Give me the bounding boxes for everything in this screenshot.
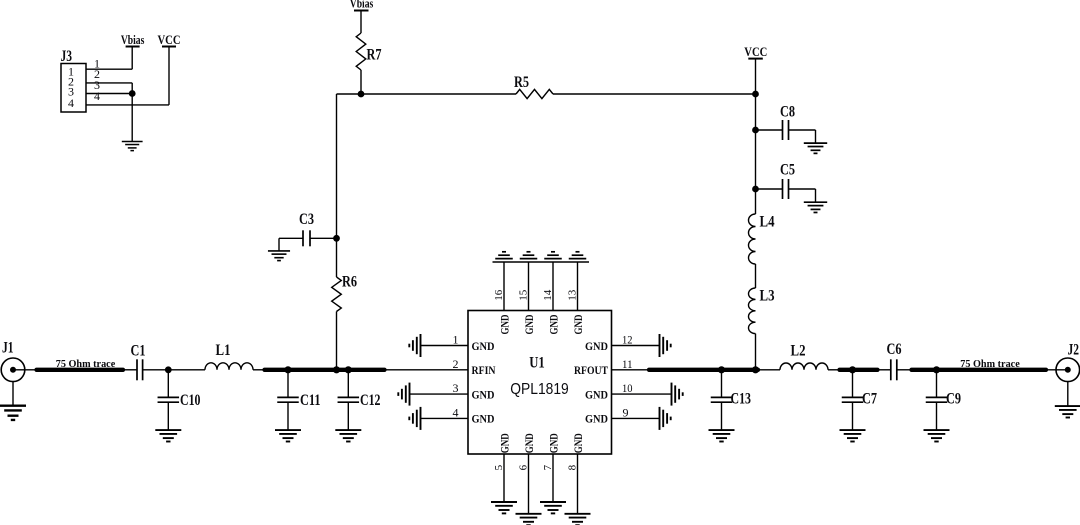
- resistor R5: [514, 74, 553, 99]
- wire bias column (C3/R6 branch): [336, 94, 338, 277]
- op-amp U1 body: [468, 311, 612, 455]
- wire VCC column upper: [755, 59, 757, 214]
- svg-text:1: 1: [453, 333, 459, 347]
- inductor L1: [205, 342, 253, 370]
- junction C9 tap: [934, 367, 940, 373]
- wire trace to J2: [1046, 369, 1068, 371]
- wire R6 to input trace: [336, 312, 338, 370]
- power flag Vbias (J3 area): [121, 33, 145, 47]
- ground U1 pin 14: [544, 252, 562, 259]
- trace input 75 Ohm: [37, 368, 124, 372]
- svg-text:GND: GND: [497, 314, 511, 334]
- wire Vbias to R7: [360, 11, 362, 34]
- capacitor C11: [277, 370, 320, 430]
- svg-text:GND: GND: [585, 387, 608, 401]
- svg-text:8: 8: [566, 464, 578, 470]
- trace output matching: [840, 368, 878, 372]
- wire U1 pin 13: [577, 262, 579, 311]
- wire U1 pin 15: [528, 262, 530, 311]
- svg-text:C3: C3: [299, 211, 314, 228]
- wire L2 to output trace 2: [828, 369, 839, 371]
- svg-text:11: 11: [622, 357, 633, 371]
- svg-text:RFIN: RFIN: [472, 363, 496, 377]
- capacitor C7: [842, 370, 877, 430]
- resistor R6: [332, 274, 357, 312]
- U1 top pins common bar: [493, 261, 590, 263]
- wire U1 pin 7: [552, 454, 554, 502]
- power flag VCC (J3 area): [158, 33, 181, 47]
- svg-text:Vbias: Vbias: [121, 33, 145, 47]
- wire J3 pin 4: [86, 104, 169, 106]
- ground J1: [0, 406, 26, 420]
- junction R7 / bias rail: [358, 91, 363, 96]
- resistor R7: [356, 33, 381, 70]
- wire U1 pin 14: [552, 262, 554, 311]
- junction C3 tap: [334, 236, 339, 241]
- wire L1 to input trace 2: [253, 369, 264, 371]
- connector J2: [1056, 342, 1080, 382]
- svg-text:GND: GND: [571, 433, 585, 453]
- svg-text:Vbias: Vbias: [350, 0, 374, 10]
- wire J3 pin 2: [86, 82, 132, 84]
- svg-text:C9: C9: [946, 391, 961, 408]
- svg-text:C1: C1: [131, 343, 146, 360]
- svg-text:16: 16: [493, 289, 505, 301]
- capacitor C6: [878, 341, 912, 380]
- wire VCC flag to J3 pin 4: [168, 47, 170, 105]
- svg-text:C10: C10: [180, 392, 201, 409]
- svg-text:C11: C11: [300, 392, 321, 409]
- wire R7 to bias node: [360, 70, 362, 94]
- inductor L4: [749, 214, 775, 265]
- wire J1 to ground: [12, 382, 14, 406]
- svg-text:J2: J2: [1068, 342, 1080, 359]
- svg-text:RFOUT: RFOUT: [574, 363, 608, 377]
- ground C12: [335, 430, 361, 441]
- svg-text:GND: GND: [585, 339, 608, 353]
- connector J3: [61, 48, 87, 112]
- junction L3 tap: [753, 367, 759, 373]
- wire C1 node to L1: [168, 369, 205, 371]
- junction C7 tap: [850, 367, 856, 373]
- ground U1 pin 8: [565, 514, 591, 525]
- svg-text:2: 2: [453, 357, 459, 371]
- wire L3 to output trace: [755, 334, 757, 370]
- ground U1 pin 15: [520, 252, 538, 259]
- svg-text:9: 9: [623, 405, 629, 419]
- wire bias rail right segment to VCC node: [553, 93, 756, 95]
- wire J3 pin 1: [86, 68, 132, 70]
- svg-text:VCC: VCC: [158, 33, 181, 47]
- ground C8: [804, 143, 827, 153]
- ground U1 pin 13: [569, 252, 587, 259]
- power flag VCC (right): [744, 45, 767, 59]
- ground U1 pin 6: [516, 514, 542, 525]
- capacitor C5: [756, 162, 816, 203]
- svg-text:3: 3: [453, 381, 459, 395]
- inductor L3: [749, 288, 775, 334]
- svg-text:75 Ohm trace: 75 Ohm trace: [960, 358, 1020, 370]
- svg-text:R7: R7: [367, 47, 382, 64]
- power flag Vbias (top): [350, 0, 374, 11]
- svg-text:GND: GND: [546, 314, 560, 334]
- ground U1 pin 12: [660, 334, 671, 357]
- ground C10: [155, 430, 181, 441]
- svg-text:4: 4: [68, 96, 74, 110]
- ground U1 pin 9: [660, 407, 671, 430]
- svg-text:L3: L3: [760, 288, 775, 305]
- ground J2: [1055, 406, 1080, 417]
- ground U1 pin 4: [409, 407, 420, 430]
- junction C5 tap: [753, 186, 758, 191]
- wire J2 to ground: [1067, 381, 1069, 406]
- junction C10 tap: [166, 367, 171, 372]
- svg-text:4: 4: [94, 89, 100, 103]
- wire U1 pin 11: [612, 369, 649, 371]
- wire U1 pin 3: [410, 393, 469, 395]
- svg-text:C5: C5: [780, 162, 795, 179]
- svg-text:VCC: VCC: [744, 45, 767, 59]
- ground C9: [924, 430, 950, 441]
- wire U1 pin 6: [528, 454, 530, 514]
- wire L4 to L3: [755, 264, 757, 288]
- junction C8 tap: [753, 127, 758, 132]
- svg-text:13: 13: [566, 289, 578, 301]
- junction J3 pin 3: [130, 91, 135, 96]
- junction VCC / bias rail: [753, 91, 758, 96]
- svg-text:R5: R5: [514, 74, 529, 91]
- capacitor C1: [123, 343, 168, 381]
- svg-text:GND: GND: [571, 314, 585, 334]
- svg-text:L1: L1: [216, 342, 231, 359]
- svg-text:L2: L2: [791, 343, 806, 360]
- inductor L2: [780, 343, 828, 370]
- svg-text:L4: L4: [760, 214, 775, 231]
- svg-text:C7: C7: [862, 391, 877, 408]
- svg-text:C13: C13: [731, 391, 752, 408]
- trace U1 output: [649, 368, 758, 372]
- capacitor C8: [756, 103, 816, 143]
- wire U1 pin 12: [612, 345, 660, 347]
- svg-text:C6: C6: [887, 341, 902, 358]
- svg-text:GND: GND: [585, 412, 608, 426]
- junction C11 tap: [285, 367, 291, 373]
- ground C11: [275, 430, 301, 441]
- wire U1 pin 9: [612, 417, 660, 419]
- trace output 75 Ohm: [912, 368, 1047, 372]
- junction R6 tap on trace: [334, 367, 340, 373]
- ground U1 pin 3: [398, 383, 409, 406]
- wire J3 pins 2-3 to ground: [131, 83, 133, 142]
- svg-text:12: 12: [622, 333, 633, 347]
- svg-text:R6: R6: [342, 274, 357, 291]
- wire U1 pin 8: [577, 454, 579, 514]
- wire U1 pin 16: [503, 262, 505, 311]
- svg-text:J3: J3: [61, 48, 73, 65]
- ground J3: [122, 142, 143, 151]
- svg-text:GND: GND: [546, 433, 560, 453]
- svg-text:14: 14: [542, 289, 554, 301]
- svg-text:C12: C12: [360, 392, 381, 409]
- svg-text:GND: GND: [472, 339, 495, 353]
- svg-text:7: 7: [542, 464, 554, 470]
- wire J1 to trace: [13, 369, 36, 371]
- svg-text:4: 4: [453, 405, 459, 419]
- capacitor C13: [711, 370, 751, 430]
- wire J3 pin 3: [86, 93, 132, 95]
- svg-text:J1: J1: [2, 340, 14, 357]
- trace input matching: [265, 368, 385, 372]
- wire bias rail left segment: [337, 93, 517, 95]
- ground C5: [804, 202, 827, 212]
- wire U1 pin 4: [421, 417, 469, 419]
- ground U1 pin 16: [495, 252, 513, 259]
- svg-text:GND: GND: [497, 433, 511, 453]
- ground U1 pin 5: [491, 502, 517, 513]
- capacitor C9: [926, 370, 961, 430]
- capacitor C12: [338, 370, 381, 430]
- svg-text:GND: GND: [522, 314, 536, 334]
- wire U1 pin 5: [503, 454, 505, 502]
- junction C13 tap: [719, 367, 725, 373]
- svg-text:C8: C8: [780, 103, 795, 120]
- svg-text:15: 15: [517, 289, 529, 301]
- ground U1 pin 10: [672, 383, 683, 406]
- svg-text:QPL1819: QPL1819: [510, 381, 569, 398]
- wire output node to L2: [758, 369, 780, 371]
- ground U1 pin 1: [409, 334, 420, 357]
- wire U1 pin 1: [421, 345, 469, 347]
- svg-text:GND: GND: [522, 433, 536, 453]
- svg-text:GND: GND: [472, 412, 495, 426]
- svg-text:GND: GND: [472, 387, 495, 401]
- capacitor C10: [158, 370, 201, 430]
- svg-text:5: 5: [493, 464, 505, 470]
- svg-text:6: 6: [517, 464, 529, 470]
- svg-text:10: 10: [622, 381, 633, 395]
- ground C13: [709, 430, 735, 441]
- ground U1 pin 7: [540, 502, 566, 513]
- wire Vbias flag to J3 pin 1: [131, 47, 133, 70]
- wire trace to U1 RFIN: [385, 369, 469, 371]
- connector J1: [1, 340, 25, 382]
- junction C12 tap: [345, 367, 351, 373]
- svg-text:U1: U1: [529, 355, 545, 372]
- ground C7: [840, 430, 866, 441]
- wire U1 pin 10: [612, 393, 672, 395]
- ground C3: [268, 251, 290, 261]
- capacitor C3: [279, 211, 337, 251]
